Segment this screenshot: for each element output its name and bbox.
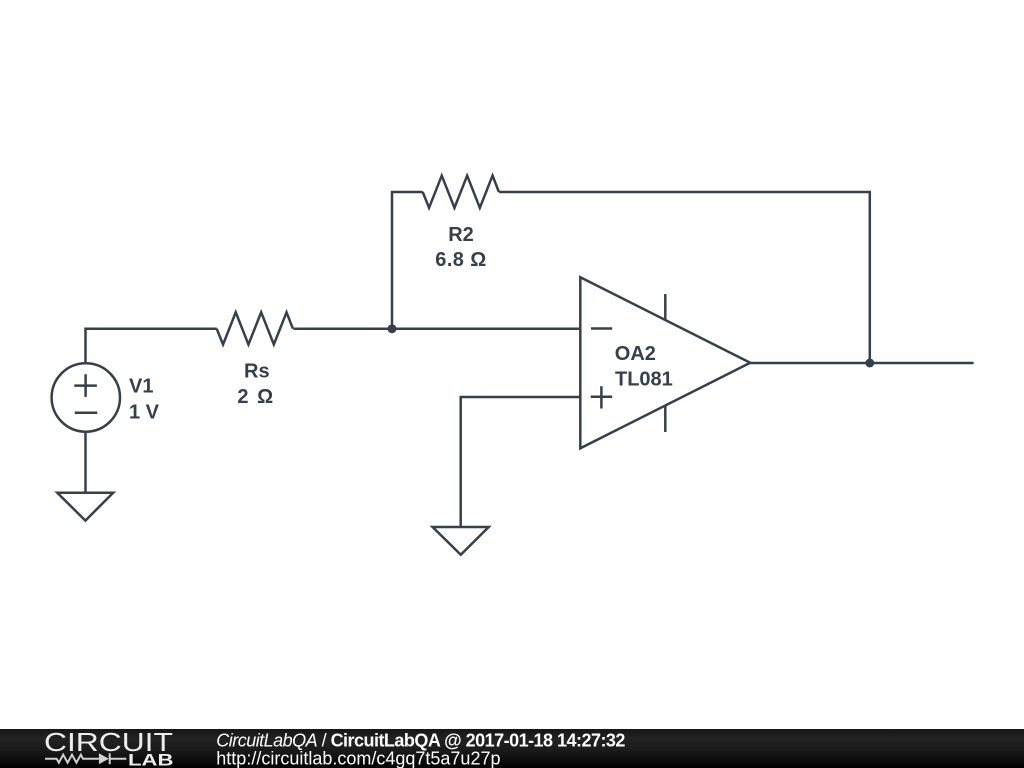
footer line 2: url <box>216 749 500 768</box>
value label TL081 <box>615 369 673 391</box>
node A junction dot <box>388 324 397 333</box>
ground symbol under V1 <box>57 493 113 521</box>
footer line 1: author / title @ timestamp <box>216 730 625 750</box>
value label 1 V <box>129 401 160 423</box>
svg-text:V1: V1 <box>129 375 153 397</box>
logo resistor-diode glyph <box>45 753 126 764</box>
svg-text:R2: R2 <box>448 224 474 246</box>
svg-text:2 Ω: 2 Ω <box>237 386 274 408</box>
svg-text:Rs: Rs <box>244 361 270 383</box>
svg-text:TL081: TL081 <box>615 369 673 391</box>
wire: V1 bottom stub to ground <box>84 432 87 493</box>
ground symbol at non-inverting input <box>433 527 489 555</box>
wire: node A to R2 left vertical <box>392 192 423 329</box>
op-amp plus input marker <box>591 386 613 408</box>
label V1 <box>129 375 153 397</box>
svg-text:CircuitLabQA / CircuitLabQA @: CircuitLabQA / CircuitLabQA @ 2017-01-18… <box>216 730 625 750</box>
voltage source V1 circle <box>52 363 120 431</box>
op-amp positive supply pin <box>664 294 667 320</box>
svg-text:LAB: LAB <box>128 751 173 768</box>
output node junction dot <box>865 359 874 368</box>
resistor R2 <box>423 176 499 208</box>
wire: R2 right lead to right vertical down to output net <box>499 192 870 363</box>
wire: op-amp output to right edge <box>750 362 973 365</box>
svg-text:http://circuitlab.com/c4gq7t5a: http://circuitlab.com/c4gq7t5a7u27p <box>216 749 500 768</box>
value label 2 ohm <box>237 386 274 408</box>
op-amp OA2 triangle <box>580 277 750 448</box>
svg-text:6.8 Ω: 6.8 Ω <box>435 249 486 271</box>
label R2 <box>448 224 474 246</box>
CircuitLab logo text LAB <box>128 751 173 768</box>
V1 minus sign <box>75 411 98 414</box>
label Rs <box>244 361 270 383</box>
wire: V1 top stub and input net to op-amp inverting input <box>86 329 581 363</box>
svg-text:1 V: 1 V <box>129 401 160 423</box>
wire: non-inverting input to ground stem <box>461 397 581 527</box>
value label 6.8 ohm <box>435 249 486 271</box>
V1 plus sign <box>74 374 97 397</box>
label OA2 <box>615 343 656 365</box>
op-amp negative supply pin <box>664 405 667 432</box>
svg-text:OA2: OA2 <box>615 343 656 365</box>
op-amp minus input marker <box>591 327 612 330</box>
CircuitLab logo text CIRCUIT <box>44 729 173 757</box>
resistor Rs <box>217 312 293 344</box>
